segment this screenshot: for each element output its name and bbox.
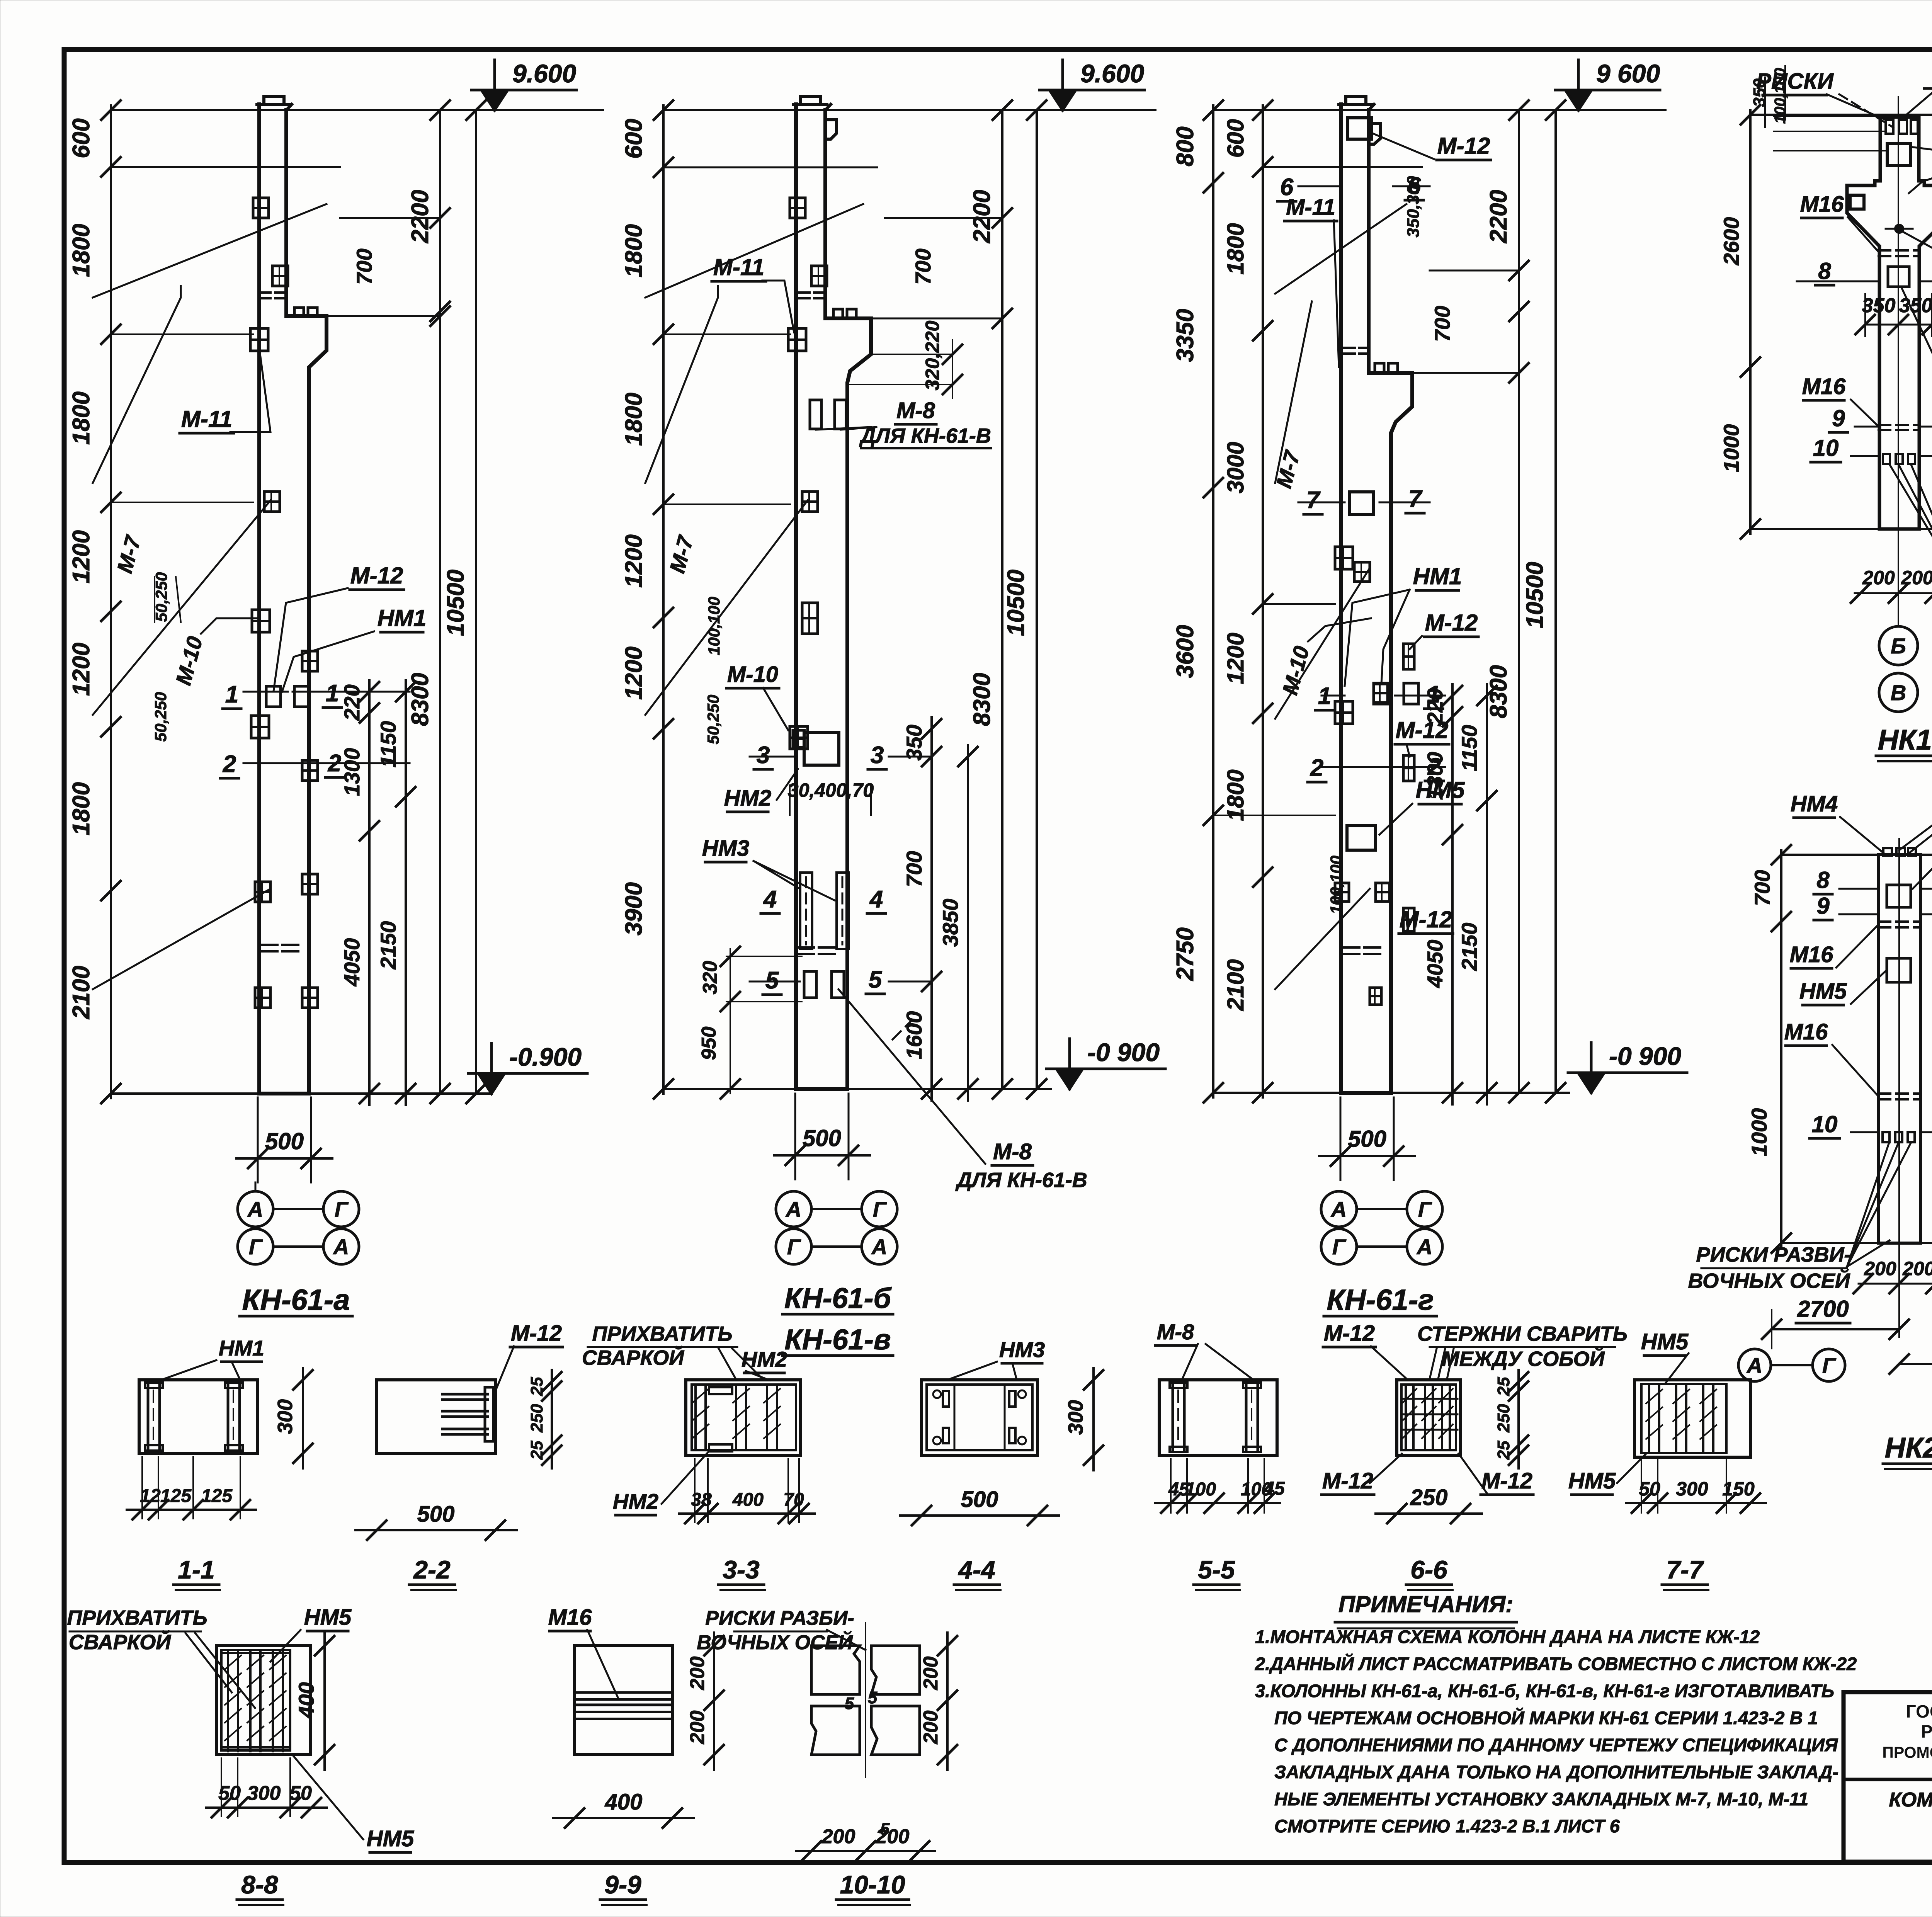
svg-text:300: 300 <box>247 1782 281 1805</box>
section 3-3 <box>582 1322 815 1590</box>
svg-text:100: 100 <box>1185 1479 1216 1500</box>
svg-text:5: 5 <box>880 1820 890 1839</box>
section 5-5 <box>1155 1320 1285 1590</box>
svg-text:2150: 2150 <box>1457 923 1481 971</box>
section mark 6 col3 <box>1348 118 1372 139</box>
svg-text:10500: 10500 <box>442 570 469 636</box>
svg-text:М16: М16 <box>1800 192 1844 217</box>
svg-text:8: 8 <box>1818 258 1831 284</box>
svg-text:НМ5: НМ5 <box>367 1826 414 1851</box>
section mark 1 col3 <box>1321 695 1345 697</box>
column body НК1 <box>1847 117 1880 529</box>
svg-text:350: 350 <box>1899 294 1932 317</box>
svg-text:2200: 2200 <box>407 190 434 243</box>
svg-text:2200: 2200 <box>969 190 995 243</box>
svg-text:4-4: 4-4 <box>957 1555 995 1584</box>
svg-text:ГОССТРОЙ СССР: ГОССТРОЙ СССР <box>1906 1701 1932 1721</box>
svg-text:НМ5: НМ5 <box>1641 1329 1689 1354</box>
svg-text:400: 400 <box>605 1789 643 1815</box>
column elevation КН-61-б/в <box>621 59 1165 1356</box>
notes heading ПРИМЕЧАНИЯ <box>1335 1591 1517 1628</box>
svg-text:Г: Г <box>335 1197 349 1221</box>
column elevation КН-61-а <box>68 59 603 1317</box>
svg-text:3000: 3000 <box>1223 442 1248 493</box>
svg-text:4: 4 <box>869 886 883 913</box>
svg-text:2600: 2600 <box>1719 217 1743 266</box>
svg-text:М-12: М-12 <box>350 563 403 589</box>
svg-text:1200: 1200 <box>1223 633 1248 684</box>
axis circles col3 <box>1321 1191 1357 1227</box>
svg-text:300: 300 <box>1676 1478 1708 1500</box>
svg-text:А: А <box>1746 1353 1762 1378</box>
axis circle Б <box>1879 626 1918 665</box>
dim 500 col1 <box>236 1157 332 1160</box>
svg-text:5: 5 <box>868 1688 878 1707</box>
dim 500 col3 <box>1319 1155 1415 1157</box>
svg-text:НМ2: НМ2 <box>742 1347 787 1371</box>
svg-text:1800: 1800 <box>1223 769 1248 821</box>
svg-text:ДЛЯ КН-61-В: ДЛЯ КН-61-В <box>859 424 991 447</box>
svg-text:6-6: 6-6 <box>1410 1555 1448 1584</box>
svg-text:М-8: М-8 <box>993 1139 1032 1164</box>
svg-text:М16: М16 <box>1802 374 1846 399</box>
svg-text:9: 9 <box>1832 405 1845 431</box>
section mark 3 col2 <box>750 756 795 758</box>
svg-text:Г: Г <box>873 1197 887 1221</box>
svg-text:1800: 1800 <box>621 224 647 277</box>
title block <box>1844 1692 1932 1862</box>
svg-text:125: 125 <box>201 1486 233 1506</box>
svg-text:ПРИМЕЧАНИЯ:: ПРИМЕЧАНИЯ: <box>1338 1591 1513 1617</box>
svg-text:1800: 1800 <box>68 391 95 445</box>
svg-text:1800: 1800 <box>621 393 647 446</box>
svg-text:КН-61-б: КН-61-б <box>784 1282 892 1314</box>
svg-text:250: 250 <box>1410 1485 1448 1510</box>
section 2-2 <box>355 1321 563 1590</box>
svg-text:45: 45 <box>1264 1478 1285 1499</box>
svg-text:9.600: 9.600 <box>512 59 576 88</box>
svg-text:1.МОНТАЖНАЯ СХЕМА КОЛОНН ДАНА: 1.МОНТАЖНАЯ СХЕМА КОЛОНН ДАНА НА ЛИСТЕ К… <box>1255 1626 1760 1647</box>
section mark 5 col2 <box>804 971 816 998</box>
svg-text:8-8: 8-8 <box>241 1870 278 1899</box>
svg-text:1200: 1200 <box>68 643 95 696</box>
svg-text:НМ5: НМ5 <box>304 1605 352 1630</box>
svg-text:А: А <box>247 1197 263 1221</box>
svg-text:10: 10 <box>1812 1111 1838 1137</box>
section 10-10 <box>697 1607 957 1905</box>
svg-text:800: 800 <box>1172 126 1199 166</box>
svg-text:М-12: М-12 <box>1322 1468 1373 1493</box>
level mark 9.600 col1 <box>481 90 508 110</box>
svg-text:1200: 1200 <box>621 534 647 588</box>
svg-text:2150: 2150 <box>376 921 400 970</box>
svg-text:1200: 1200 <box>68 530 95 583</box>
svg-text:8: 8 <box>1816 867 1830 893</box>
svg-text:50,250: 50,250 <box>151 692 170 742</box>
section mark 1 col1 <box>243 691 288 693</box>
svg-text:ПРОМСТРОЙНИИПРОЕКТ: ПРОМСТРОЙНИИПРОЕКТ <box>1882 1744 1932 1761</box>
svg-text:А: А <box>1330 1197 1347 1221</box>
dim 3600 НК2 <box>1899 1363 1932 1365</box>
svg-text:600: 600 <box>1223 119 1248 158</box>
svg-text:12: 12 <box>140 1486 161 1506</box>
svg-text:Г: Г <box>1332 1235 1347 1259</box>
svg-text:2.ДАННЫЙ ЛИСТ РАССМАТРИВАТЬ СО: 2.ДАННЫЙ ЛИСТ РАССМАТРИВАТЬ СОВМЕСТНО С … <box>1255 1653 1857 1674</box>
svg-text:ЗАКЛАДНЫХ ДАНА ТОЛЬКО НА ДОПОЛ: ЗАКЛАДНЫХ ДАНА ТОЛЬКО НА ДОПОЛНИТЕЛЬНЫЕ … <box>1274 1762 1838 1782</box>
svg-text:700: 700 <box>352 248 376 284</box>
svg-text:3850: 3850 <box>938 899 963 947</box>
column body НК2 <box>1878 855 1920 1243</box>
svg-text:РИСКИ РАЗБИ-: РИСКИ РАЗБИ- <box>705 1607 854 1630</box>
svg-text:НЫЕ ЭЛЕМЕНТЫ УСТАНОВКУ ЗАКЛАДН: НЫЕ ЭЛЕМЕНТЫ УСТАНОВКУ ЗАКЛАДНЫХ М-7, М-… <box>1274 1789 1808 1809</box>
svg-text:950: 950 <box>698 1027 720 1060</box>
svg-text:М-11: М-11 <box>1286 195 1335 220</box>
level mark 9.600 col3 <box>1565 90 1592 110</box>
svg-text:3.КОЛОННЫ КН-61-а, КН-61-б, КН: 3.КОЛОННЫ КН-61-а, КН-61-б, КН-61-в, КН-… <box>1255 1681 1834 1701</box>
svg-text:Г: Г <box>249 1235 263 1259</box>
svg-text:9-9: 9-9 <box>604 1870 641 1899</box>
svg-text:10500: 10500 <box>1522 562 1548 628</box>
svg-text:НМ5: НМ5 <box>1568 1468 1616 1493</box>
svg-text:В: В <box>1891 680 1906 705</box>
svg-text:СВАРКОЙ: СВАРКОЙ <box>69 1630 171 1654</box>
column elevation КН-61-г <box>1172 59 1687 1317</box>
svg-text:50,250: 50,250 <box>704 695 722 744</box>
svg-text:1000: 1000 <box>1747 1108 1771 1157</box>
svg-text:НМ4: НМ4 <box>1791 791 1838 816</box>
column body col1 <box>257 104 261 1094</box>
svg-text:М-12: М-12 <box>1425 610 1478 636</box>
svg-text:НК1.: НК1. <box>1878 724 1932 756</box>
svg-text:РОСТОВСКИЙ: РОСТОВСКИЙ <box>1921 1721 1932 1742</box>
svg-text:700: 700 <box>1750 870 1774 906</box>
svg-text:КН-61-г: КН-61-г <box>1327 1284 1434 1317</box>
svg-text:25: 25 <box>527 1441 546 1460</box>
svg-text:А: А <box>1416 1235 1432 1259</box>
svg-text:9 600: 9 600 <box>1596 59 1660 88</box>
svg-text:10500: 10500 <box>1003 570 1029 636</box>
svg-text:1: 1 <box>225 681 238 708</box>
svg-text:100,100: 100,100 <box>1327 856 1345 914</box>
axis circles col1 <box>238 1191 273 1227</box>
svg-text:300: 300 <box>1064 1400 1087 1435</box>
svg-text:200: 200 <box>920 1657 942 1691</box>
svg-text:Г: Г <box>1822 1353 1837 1378</box>
svg-text:600: 600 <box>68 118 95 158</box>
notes text <box>1255 1626 1857 1836</box>
svg-text:СТЕРЖНИ СВАРИТЬ: СТЕРЖНИ СВАРИТЬ <box>1417 1322 1628 1345</box>
svg-text:1: 1 <box>326 680 339 707</box>
svg-text:1800: 1800 <box>68 782 95 835</box>
svg-text:25: 25 <box>1494 1377 1513 1396</box>
svg-text:320: 320 <box>699 961 721 995</box>
svg-text:200: 200 <box>821 1825 855 1848</box>
svg-text:А: А <box>785 1197 801 1221</box>
svg-text:РИСКИ РАЗВИ-: РИСКИ РАЗВИ- <box>1696 1243 1851 1266</box>
svg-text:1800: 1800 <box>68 224 95 277</box>
section mark 4 col2 <box>800 873 812 949</box>
svg-text:ДЛЯ КН-61-В: ДЛЯ КН-61-В <box>955 1169 1087 1192</box>
svg-text:1000: 1000 <box>1719 424 1743 473</box>
column elevation НК2 <box>1688 791 1932 1469</box>
svg-text:50: 50 <box>289 1782 312 1805</box>
svg-text:3: 3 <box>871 742 884 769</box>
dim 500 col2 <box>774 1154 870 1157</box>
svg-text:СМОТРИТЕ СЕРИЮ 1.423-2 В.1 ЛИС: СМОТРИТЕ СЕРИЮ 1.423-2 В.1 ЛИСТ 6 <box>1274 1816 1620 1836</box>
svg-text:-0.900: -0.900 <box>509 1043 582 1071</box>
svg-text:ВОЧНЫХ ОСЕЙ: ВОЧНЫХ ОСЕЙ <box>697 1631 853 1654</box>
svg-text:НМ2: НМ2 <box>613 1489 658 1514</box>
svg-text:-0 900: -0 900 <box>1087 1038 1160 1067</box>
svg-text:М-12: М-12 <box>511 1321 562 1346</box>
dim 2700 НК2 <box>1772 1328 1899 1330</box>
svg-text:220: 220 <box>1423 688 1447 725</box>
svg-text:А: А <box>333 1235 349 1259</box>
svg-text:М16: М16 <box>1784 1019 1828 1044</box>
svg-text:600: 600 <box>621 119 647 158</box>
svg-text:1200: 1200 <box>621 646 647 700</box>
svg-text:200: 200 <box>1864 1258 1896 1279</box>
svg-text:300: 300 <box>274 1399 297 1434</box>
section mark 2 col1 <box>243 762 410 764</box>
svg-text:М16: М16 <box>548 1605 592 1630</box>
svg-text:2700: 2700 <box>1797 1296 1849 1322</box>
svg-text:КН-61-а: КН-61-а <box>242 1284 350 1317</box>
svg-text:ПРИХВАТИТЬ: ПРИХВАТИТЬ <box>67 1606 207 1630</box>
svg-text:РИСКИ: РИСКИ <box>1756 69 1834 94</box>
svg-text:500: 500 <box>961 1487 998 1512</box>
svg-text:М-8: М-8 <box>896 398 935 423</box>
column body col3 <box>1339 104 1343 1093</box>
svg-text:5: 5 <box>869 966 883 993</box>
svg-text:С ДОПОЛНЕНИЯМИ ПО ДАННОМУ ЧЕРТ: С ДОПОЛНЕНИЯМИ ПО ДАННОМУ ЧЕРТЕЖУ СПЕЦИФ… <box>1274 1735 1838 1755</box>
svg-text:700: 700 <box>911 248 935 284</box>
svg-text:А: А <box>871 1235 887 1259</box>
section mark 2 col3 <box>1321 766 1445 768</box>
svg-text:ПО ЧЕРТЕЖАМ ОСНОВНОЙ МАРКИ КН-: ПО ЧЕРТЕЖАМ ОСНОВНОЙ МАРКИ КН-61 СЕРИИ 1… <box>1274 1708 1818 1728</box>
section 8-8 <box>67 1605 414 1905</box>
column body col2 <box>794 104 798 1089</box>
section 9-9 <box>548 1605 724 1905</box>
svg-text:НМ3: НМ3 <box>702 836 749 861</box>
svg-text:125: 125 <box>160 1486 192 1506</box>
svg-text:8300: 8300 <box>969 673 995 726</box>
svg-text:2: 2 <box>328 750 341 777</box>
svg-text:3900: 3900 <box>621 882 647 936</box>
svg-text:10-10: 10-10 <box>840 1870 905 1899</box>
svg-text:1600: 1600 <box>902 1011 926 1060</box>
svg-text:3: 3 <box>757 742 770 769</box>
svg-text:320,220: 320,220 <box>922 320 943 390</box>
axis circles col2 <box>776 1191 811 1227</box>
svg-text:7-7: 7-7 <box>1666 1555 1704 1584</box>
svg-text:КОМПРЕССОРНАЯ: КОМПРЕССОРНАЯ <box>1889 1789 1932 1811</box>
svg-text:НМ1: НМ1 <box>1413 563 1462 589</box>
column elevation НК1 <box>1719 63 1932 761</box>
svg-text:НМ1: НМ1 <box>219 1336 264 1360</box>
svg-text:1-1: 1-1 <box>178 1555 214 1584</box>
axis circles НК2 upper <box>1738 1349 1771 1381</box>
svg-text:М-10: М-10 <box>727 662 778 687</box>
svg-text:700: 700 <box>1430 306 1454 342</box>
svg-text:7: 7 <box>1408 486 1423 512</box>
svg-text:500: 500 <box>417 1502 455 1527</box>
section mark 7 col3 <box>1349 492 1373 514</box>
svg-text:3-3: 3-3 <box>723 1555 759 1584</box>
svg-text:М-12: М-12 <box>1481 1468 1532 1493</box>
svg-text:1150: 1150 <box>1457 725 1481 771</box>
svg-text:КН-61-в: КН-61-в <box>784 1323 891 1356</box>
svg-text:2100: 2100 <box>68 966 95 1019</box>
svg-text:30,400,70: 30,400,70 <box>788 779 874 801</box>
svg-text:25: 25 <box>1494 1441 1513 1460</box>
svg-text:4050: 4050 <box>340 938 364 987</box>
svg-text:НМ2: НМ2 <box>724 786 771 811</box>
svg-text:2100: 2100 <box>1223 959 1248 1011</box>
svg-text:2: 2 <box>223 751 236 777</box>
svg-text:500: 500 <box>1348 1126 1386 1152</box>
svg-text:100,100: 100,100 <box>705 597 723 655</box>
svg-text:2750: 2750 <box>1172 927 1199 981</box>
svg-text:250: 250 <box>1494 1404 1513 1433</box>
svg-text:М-11: М-11 <box>181 406 232 432</box>
svg-text:М-12: М-12 <box>1324 1321 1375 1346</box>
axis circle В <box>1879 673 1918 712</box>
svg-text:ПРИХВАТИТЬ: ПРИХВАТИТЬ <box>592 1322 732 1345</box>
level mark 9.600 col2 <box>1049 90 1076 110</box>
svg-text:МЕЖДУ СОБОЙ: МЕЖДУ СОБОЙ <box>1442 1347 1605 1371</box>
svg-text:4: 4 <box>763 886 777 913</box>
svg-text:Г: Г <box>1418 1197 1432 1221</box>
svg-text:70: 70 <box>783 1490 804 1510</box>
svg-text:9: 9 <box>1816 893 1830 919</box>
svg-text:700: 700 <box>902 851 926 887</box>
svg-text:4050: 4050 <box>1423 940 1447 988</box>
svg-text:500: 500 <box>265 1128 304 1154</box>
svg-text:М-8: М-8 <box>1157 1320 1194 1344</box>
svg-text:2: 2 <box>1310 755 1323 781</box>
level mark -0.900 col2 <box>1056 1069 1083 1089</box>
svg-text:Г: Г <box>787 1235 801 1259</box>
svg-text:7: 7 <box>1306 487 1321 514</box>
svg-text:220: 220 <box>340 684 364 721</box>
svg-text:1150: 1150 <box>376 721 400 767</box>
section 1-1 <box>127 1336 313 1590</box>
svg-text:8300: 8300 <box>1485 665 1512 718</box>
svg-text:3350: 3350 <box>1172 309 1199 362</box>
svg-text:НМ5: НМ5 <box>1799 979 1847 1004</box>
svg-text:250: 250 <box>527 1404 546 1433</box>
svg-text:ВОЧНЫХ ОСЕЙ: ВОЧНЫХ ОСЕЙ <box>1688 1269 1850 1293</box>
svg-text:25: 25 <box>527 1377 546 1396</box>
svg-text:400: 400 <box>732 1490 764 1510</box>
level mark -0.900 col1 <box>478 1073 505 1094</box>
svg-text:3600: 3600 <box>1172 625 1199 678</box>
svg-text:350: 350 <box>1862 294 1896 317</box>
svg-text:1300: 1300 <box>340 748 364 796</box>
svg-text:М16: М16 <box>1790 942 1834 967</box>
svg-text:1800: 1800 <box>1223 223 1248 274</box>
section 6-6 <box>1321 1321 1628 1590</box>
svg-text:1300: 1300 <box>1423 752 1447 800</box>
svg-text:9.600: 9.600 <box>1080 59 1144 88</box>
svg-text:8300: 8300 <box>407 673 434 726</box>
svg-text:500: 500 <box>803 1125 841 1151</box>
svg-text:200: 200 <box>686 1711 709 1745</box>
section 7-7 <box>1568 1329 1766 1590</box>
svg-text:5-5: 5-5 <box>1198 1555 1235 1584</box>
section 4-4 <box>900 1337 1103 1590</box>
svg-text:2-2: 2-2 <box>413 1555 451 1584</box>
svg-text:200: 200 <box>920 1711 942 1745</box>
svg-text:НМ3: НМ3 <box>999 1337 1045 1362</box>
svg-text:1: 1 <box>1318 683 1331 709</box>
section mark 8 НК1 <box>1797 281 1877 282</box>
svg-text:400: 400 <box>294 1682 318 1718</box>
svg-text:350: 350 <box>902 725 926 760</box>
svg-text:НМ1: НМ1 <box>378 605 427 631</box>
level mark -0.900 col3 <box>1578 1073 1604 1093</box>
svg-text:Б: Б <box>1891 634 1906 658</box>
svg-text:М-12: М-12 <box>1437 133 1490 159</box>
svg-text:10: 10 <box>1813 435 1839 461</box>
svg-text:5: 5 <box>845 1694 854 1713</box>
svg-text:2200: 2200 <box>1485 190 1512 243</box>
svg-text:СВАРКОЙ: СВАРКОЙ <box>582 1345 684 1369</box>
svg-text:200: 200 <box>686 1657 709 1691</box>
svg-text:350,300: 350,300 <box>1404 176 1423 238</box>
svg-text:-0 900: -0 900 <box>1609 1042 1681 1070</box>
svg-text:НК2.: НК2. <box>1885 1432 1932 1464</box>
